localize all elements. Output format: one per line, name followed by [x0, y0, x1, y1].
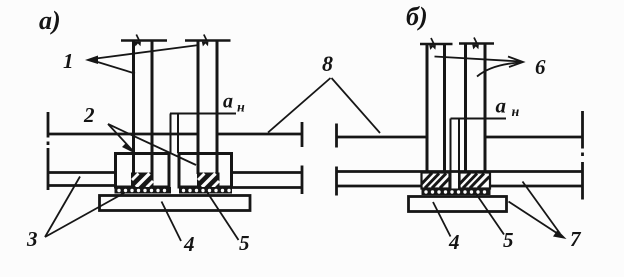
bottom chord lower line right	[337, 185, 583, 188]
grout seam with dots under B2	[179, 187, 232, 194]
label 4 right with leader	[433, 202, 460, 254]
anchor rod 4	[466, 44, 486, 173]
label 3 with leaders	[26, 177, 125, 252]
svg-text:а: а	[496, 94, 507, 118]
label 2 with leaders to bearing blocks	[83, 103, 196, 165]
anchor bolt channel between blocks	[171, 114, 179, 154]
anchor rod 2	[198, 41, 217, 174]
bearing block (box) B1	[116, 154, 170, 188]
svg-text:5: 5	[503, 228, 514, 252]
svg-text:4: 4	[183, 232, 195, 256]
svg-text:н: н	[237, 101, 245, 116]
label 1 with leader arrows to rods	[63, 45, 199, 74]
text a_n right	[496, 94, 520, 121]
bottom chord upper line left	[47, 171, 302, 174]
label 6 with leader arrows to rods	[435, 55, 547, 79]
svg-text:6: 6	[535, 55, 546, 79]
svg-text:2: 2	[83, 103, 95, 127]
mid-left beam end ticks	[301, 122, 304, 194]
bottom chord lower line left	[47, 186, 302, 188]
label 7 with leader arrows	[509, 182, 583, 252]
anchor rod 1	[134, 41, 153, 174]
rod 3 break line with squiggle	[420, 38, 453, 50]
rod 4 break line with squiggle	[459, 38, 494, 50]
svg-text:5: 5	[239, 231, 250, 255]
base plate left	[100, 196, 251, 211]
anchor rod 3	[427, 44, 445, 173]
top chord beam line right	[337, 136, 583, 139]
bearing block (box) B2	[179, 154, 232, 188]
rod 1 break line with squiggle	[121, 35, 167, 47]
grout seam with dots under B1	[115, 187, 172, 194]
bottom chord upper line right	[337, 170, 583, 173]
grout seam with dots right	[422, 189, 491, 196]
left cut line (dash-dot end of beams)	[47, 112, 50, 190]
label 5 right with leader	[475, 192, 514, 253]
label 8 with leaders to both beams	[268, 51, 380, 133]
rod 2 break line with squiggle	[185, 35, 231, 47]
svg-text:1: 1	[63, 49, 74, 73]
anchor plate washer (hatched) in B1	[131, 173, 154, 188]
text a_n left	[223, 91, 245, 116]
label 5 left with leader	[205, 189, 250, 255]
anchor bolt channel right	[451, 119, 460, 190]
anchor plate washer (hatched) in B2	[197, 173, 220, 188]
hatched bearing pad right A	[422, 173, 451, 189]
label 4 left with leader	[162, 202, 195, 257]
svg-text:3: 3	[26, 227, 38, 251]
base plate right	[409, 197, 507, 212]
hatched bearing pad right B	[460, 173, 491, 189]
svg-text:н: н	[512, 105, 520, 120]
svg-text:7: 7	[570, 227, 582, 251]
svg-text:а): а)	[39, 6, 61, 35]
dimension line a_n right	[451, 118, 507, 120]
right cut line (dash-dot end of beams)	[581, 111, 584, 200]
mid-right beam end ticks	[335, 124, 338, 196]
label a) view marker	[39, 6, 61, 35]
svg-text:б): б)	[406, 2, 428, 31]
svg-text:а: а	[223, 91, 233, 113]
dimension line a_n left	[170, 113, 236, 115]
svg-text:8: 8	[322, 51, 333, 76]
top chord beam line left	[48, 133, 302, 136]
label b) view marker	[406, 2, 428, 31]
